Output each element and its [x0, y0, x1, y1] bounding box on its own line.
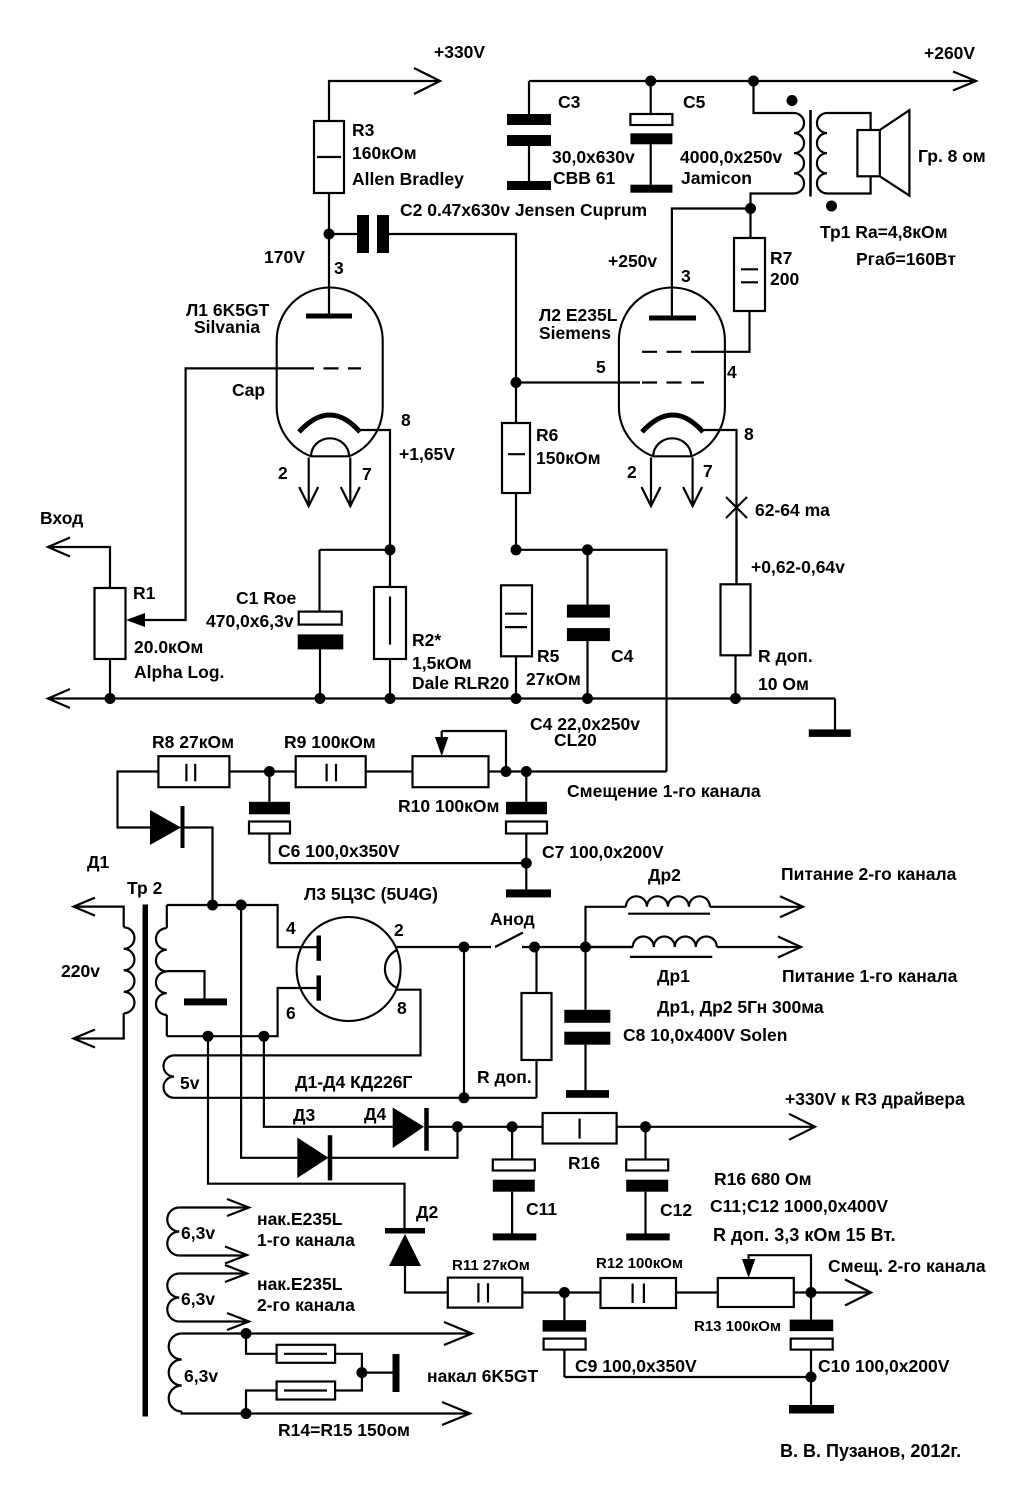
wire Л3 pin 2 to switch: [396, 946, 491, 948]
node pin2/bus tap: [459, 942, 470, 953]
wire CT to chassis bar: [362, 1371, 393, 1373]
potentiometer R1: [95, 588, 126, 659]
node R5 on bus: [511, 693, 522, 704]
R13 wiper arrow: [742, 1255, 811, 1292]
svg-text:C11;C12 1000,0x400V: C11;C12 1000,0x400V: [710, 1196, 888, 1216]
svg-text:Д1-Д4 КД226Г: Д1-Д4 КД226Г: [295, 1072, 412, 1092]
heater arrow pin 2 Л1: [299, 458, 318, 507]
resistor R8: [158, 756, 229, 787]
node R14 tap: [241, 1328, 252, 1339]
capacitor C11: [493, 1127, 535, 1234]
wire cathode bus C1-R2: [320, 549, 391, 551]
svg-text:R11 27кОм: R11 27кОм: [452, 1257, 530, 1274]
resistor R доп PSU: [522, 947, 552, 1098]
node heater CT: [356, 1367, 367, 1378]
node pin2 line on 5v bus: [459, 1092, 470, 1103]
ground bus with left arrow: [48, 697, 835, 699]
chassis bar накал: [393, 1354, 400, 1392]
svg-text:R9 100кОм: R9 100кОм: [284, 732, 376, 752]
svg-text:R6: R6: [536, 425, 559, 445]
svg-text:R13 100кОм: R13 100кОм: [694, 1318, 781, 1335]
resistor R5: [501, 585, 532, 698]
svg-text:R доп.: R доп.: [758, 646, 813, 666]
choke Др2: [586, 896, 804, 947]
svg-text:150кОм: 150кОм: [536, 448, 601, 468]
svg-text:CBB 61: CBB 61: [553, 168, 616, 188]
resistor R9: [296, 756, 366, 787]
ground symbol HV center tap: [184, 998, 227, 1005]
wire R11 to R12: [522, 1291, 600, 1293]
svg-text:Ргаб=160Вт: Ргаб=160Вт: [856, 249, 956, 269]
wire X to R доп: [735, 518, 737, 584]
resistor R7: [734, 209, 765, 312]
wire cathode pin 8 Л2 down: [703, 430, 737, 584]
node C4 top: [582, 544, 593, 555]
svg-text:7: 7: [703, 461, 713, 481]
svg-text:R доп. 3,3 кОм 15 Вт.: R доп. 3,3 кОм 15 Вт.: [713, 1225, 896, 1245]
svg-text:+1,65V: +1,65V: [399, 444, 455, 464]
svg-text:C1 Roe: C1 Roe: [236, 588, 297, 608]
svg-text:R12 100кОм: R12 100кОм: [596, 1255, 683, 1272]
node Л2 grid / R6: [511, 377, 522, 388]
Tp1 core: [809, 110, 812, 197]
wire node to Л2 plate stem: [672, 209, 751, 319]
wire HV bottom: [167, 988, 317, 1036]
node R доп on bus: [730, 693, 741, 704]
heater dome Л1: [311, 438, 349, 456]
resistor R6: [502, 383, 530, 550]
svg-text:Л3 5Ц3С (5U4G): Л3 5Ц3С (5U4G): [304, 884, 438, 904]
node Д2 feed on HV bottom: [203, 1031, 214, 1042]
wire R1 bottom to ground bus: [109, 659, 111, 699]
node junction R3/C2/plate: [324, 229, 335, 240]
svg-text:1-го канала: 1-го канала: [257, 1230, 355, 1250]
heater dome Л2: [653, 438, 691, 456]
node C9/C10 join: [806, 1372, 817, 1383]
node R2 top: [385, 544, 396, 555]
wire Д3 feed down: [241, 905, 297, 1158]
rectifier Л3 envelope circle: [297, 917, 401, 1021]
svg-text:Allen Bradley: Allen Bradley: [352, 169, 464, 189]
svg-text:R14=R15 150ом: R14=R15 150ом: [278, 1420, 410, 1440]
wire Д4 feed down: [264, 1036, 393, 1127]
svg-text:R доп.: R доп.: [477, 1067, 532, 1087]
svg-text:В. В. Пузанов, 2012г.: В. В. Пузанов, 2012г.: [780, 1441, 961, 1461]
node C1 on bus: [315, 693, 326, 704]
node Tp1 primary on bus: [748, 76, 759, 87]
wire R7 bottom to screen grid pin 4: [703, 311, 750, 352]
svg-text:+330V: +330V: [434, 42, 485, 62]
svg-text:Анод: Анод: [490, 909, 535, 929]
HV center tap wire: [167, 971, 205, 998]
wire R3 bottom to node: [328, 193, 330, 316]
node plate Л2 / R7 / Tp1: [745, 203, 756, 214]
wire input with arrow to R1 top: [48, 547, 110, 588]
Tp1 phase dot secondary: [826, 201, 837, 212]
ground symbol C12: [626, 1233, 670, 1240]
Л3 anode pin 4 bar: [317, 936, 322, 961]
svg-text:R8 27кОм: R8 27кОм: [152, 732, 234, 752]
wire C6 bottom to C7 bottom: [269, 862, 526, 864]
capacitor C8: [564, 947, 610, 1090]
svg-text:C12: C12: [660, 1200, 692, 1220]
current break X symbol: [726, 497, 747, 518]
svg-text:R16: R16: [568, 1153, 600, 1173]
svg-text:Alpha Log.: Alpha Log.: [134, 662, 224, 682]
svg-text:Dale RLR20: Dale RLR20: [412, 673, 510, 693]
wire bus to Tp1 primary top: [754, 81, 795, 113]
svg-text:Питание 2-го канала: Питание 2-го канала: [781, 864, 957, 884]
wire C9 to C10 bottom join: [564, 1376, 811, 1378]
wire HV top: [167, 905, 317, 947]
svg-text:C6 100,0x350V: C6 100,0x350V: [278, 841, 400, 861]
Тр2 HV secondary winding: [156, 905, 167, 1036]
svg-text:C2 0.47x630v Jensen Cuprum: C2 0.47x630v Jensen Cuprum: [400, 200, 647, 220]
wire Д3 cathode to B+ node: [332, 1127, 458, 1158]
svg-text:R16 680 Ом: R16 680 Ом: [714, 1169, 812, 1189]
Тр2 6,3v winding 3: [169, 1322, 472, 1425]
transformer Tp1 secondary winding: [817, 113, 827, 193]
svg-text:Тр1 Ra=4,8кОм: Тр1 Ra=4,8кОм: [820, 222, 948, 242]
wire +330V feed with arrow: [329, 81, 438, 121]
svg-text:20.0кОм: 20.0кОм: [134, 637, 203, 657]
svg-text:накал 6K5GT: накал 6K5GT: [427, 1366, 538, 1386]
cathode Л2 thick arc: [642, 415, 703, 432]
svg-text:160кОм: 160кОм: [352, 143, 417, 163]
svg-text:2: 2: [278, 463, 288, 483]
node R1 on bus: [105, 693, 116, 704]
R1 wiper arrow: [126, 613, 145, 627]
capacitor C3: [507, 81, 551, 190]
svg-text:Д4: Д4: [364, 1104, 386, 1124]
node C12 tap: [640, 1121, 651, 1132]
svg-text:4000,0x250v: 4000,0x250v: [680, 147, 782, 167]
cathode Л1 thick arc: [299, 415, 360, 432]
capacitor C9: [543, 1293, 587, 1378]
wire R12 to R13: [676, 1291, 718, 1293]
wire bus end to ground: [834, 699, 836, 730]
capacitor C4: [567, 550, 610, 699]
svg-text:30,0x630v: 30,0x630v: [552, 147, 635, 167]
heater arrow pin 7 Л1: [341, 458, 360, 507]
node R6/R5 junction: [511, 544, 522, 555]
resistor R16: [543, 1113, 617, 1144]
node C9 tap: [559, 1287, 570, 1298]
node R15 tap: [241, 1408, 252, 1419]
diode Д4: [393, 1108, 427, 1151]
svg-text:C9 100,0x350V: C9 100,0x350V: [575, 1356, 697, 1376]
svg-text:Гр. 8 ом: Гр. 8 ом: [918, 146, 986, 166]
plate (anode) Л1: [306, 314, 352, 319]
resistor R14: [246, 1334, 335, 1363]
svg-text:2: 2: [627, 462, 637, 482]
node C6/C7 join: [521, 858, 532, 869]
wire R доп to ground bus: [734, 655, 736, 698]
svg-text:CL20: CL20: [554, 730, 597, 750]
Тр2 core: [143, 905, 149, 1417]
node C11 tap: [507, 1121, 518, 1132]
wire +260V bus with arrow: [529, 80, 974, 82]
svg-text:2-го канала: 2-го канала: [257, 1295, 355, 1315]
tube Л1 6K5GT envelope: [277, 288, 383, 457]
plate (anode) Л2: [649, 316, 696, 321]
wire Д4 cathode to R16: [429, 1126, 543, 1128]
capacitor C10: [790, 1293, 834, 1406]
node R2 on bus: [385, 693, 396, 704]
Тр2 6,3v winding 1: [167, 1199, 249, 1264]
svg-text:5v: 5v: [180, 1073, 200, 1093]
svg-text:Д1: Д1: [87, 852, 109, 872]
svg-text:6,3v: 6,3v: [181, 1289, 215, 1309]
svg-text:170V: 170V: [264, 247, 305, 267]
resistor R2: [374, 550, 406, 699]
svg-text:220v: 220v: [61, 961, 100, 981]
wire 5v bottom bus: [174, 1097, 536, 1099]
svg-text:R7: R7: [770, 248, 792, 268]
switch Анод: [495, 933, 540, 953]
svg-text:4: 4: [286, 918, 296, 938]
wire R9 to R10: [366, 770, 413, 772]
svg-text:C10 100,0x200V: C10 100,0x200V: [818, 1356, 950, 1376]
wire Д2 feed down: [208, 1036, 405, 1228]
svg-text:R10 100кОм: R10 100кОм: [398, 796, 499, 816]
wire R13 right with arrow Смещ: [794, 1291, 869, 1293]
svg-text:5: 5: [596, 357, 606, 377]
svg-text:C8 10,0x400V Solen: C8 10,0x400V Solen: [623, 1025, 787, 1045]
wire Д2 anode to R11: [405, 1266, 448, 1293]
Tp1 phase dot primary: [787, 95, 798, 106]
wire cathode pin 8 to R2 top: [360, 430, 390, 550]
diode Д2: [385, 1228, 425, 1266]
heater arrow pin 7 Л2: [683, 458, 702, 507]
svg-text:6,3v: 6,3v: [181, 1223, 215, 1243]
svg-text:Тр 2: Тр 2: [127, 878, 163, 898]
svg-text:Др1: Др1: [657, 966, 690, 986]
svg-text:нак.E235L: нак.E235L: [257, 1209, 343, 1229]
node Д3 feed on HV top: [236, 900, 247, 911]
control grid Л2 (dashed) with wire to node: [516, 381, 704, 383]
svg-text:Др1, Др2 5Гн 300ма: Др1, Др2 5Гн 300ма: [657, 997, 824, 1017]
node R10 wiper join: [501, 766, 512, 777]
resistor R доп 10 Ом: [721, 584, 751, 655]
svg-text:Д2: Д2: [416, 1202, 438, 1222]
svg-text:200: 200: [770, 269, 799, 289]
node C4 on bus: [582, 693, 593, 704]
node R13/C10: [806, 1287, 817, 1298]
ground symbol C11: [493, 1233, 537, 1240]
resistor R12: [601, 1278, 677, 1308]
ground symbol C8: [566, 1090, 609, 1098]
svg-text:C11: C11: [526, 1199, 557, 1219]
node B+ C8/Др: [580, 942, 591, 953]
diode Д1: [150, 806, 183, 848]
wire R14/R15 join: [335, 1354, 362, 1391]
svg-text:62-64 ma: 62-64 ma: [755, 500, 830, 520]
resistor R11: [448, 1278, 523, 1308]
svg-text:C5: C5: [683, 92, 706, 112]
wire R16 right with arrow +330V: [617, 1126, 813, 1128]
svg-text:Д3: Д3: [293, 1105, 315, 1125]
Тр2 primary 220v winding: [74, 898, 135, 1048]
wire Д1 cathode to Тр2 HV top: [184, 828, 213, 905]
potentiometer R10: [413, 756, 489, 787]
node C6 tap: [264, 766, 275, 777]
Л3 filament arc: [385, 950, 397, 988]
ground symbol C10: [789, 1405, 834, 1414]
svg-text:470,0x6,3v: 470,0x6,3v: [206, 611, 294, 631]
svg-text:Siemens: Siemens: [539, 323, 611, 343]
svg-text:нак.E235L: нак.E235L: [257, 1274, 343, 1294]
wire R10 right to feed: [489, 770, 667, 772]
svg-text:Jamicon: Jamicon: [681, 168, 752, 188]
svg-text:+330V к R3 драйвера: +330V к R3 драйвера: [785, 1089, 965, 1109]
wire Tp1 primary bottom to plate node: [751, 194, 795, 209]
svg-text:C3: C3: [558, 92, 581, 112]
svg-text:+0,62-0,64v: +0,62-0,64v: [751, 557, 845, 577]
svg-text:Смещение 1-го канала: Смещение 1-го канала: [567, 781, 761, 801]
potentiometer R13: [718, 1278, 794, 1307]
capacitor C7: [506, 772, 547, 890]
svg-text:Silvania: Silvania: [194, 317, 260, 337]
wire C2 to Л2 grid node: [389, 234, 516, 382]
resistor R15: [246, 1382, 335, 1414]
svg-text:R5: R5: [537, 646, 560, 666]
node C5 on bus: [645, 76, 656, 87]
svg-text:8: 8: [397, 998, 407, 1018]
svg-text:C4: C4: [611, 646, 634, 666]
Тр2 5v winding: [164, 1055, 175, 1097]
node Д3/Д4 join: [452, 1121, 463, 1132]
screen grid Л2 (dashed): [642, 351, 705, 353]
svg-text:3: 3: [681, 266, 691, 286]
transformer Tp1 primary winding: [794, 113, 804, 193]
wire R8 left to Д1 anode: [118, 772, 159, 828]
choke Др1: [586, 937, 802, 958]
svg-text:R3: R3: [352, 120, 375, 140]
ground symbol C7: [506, 889, 551, 897]
heater arrow pin 2 Л2: [642, 458, 661, 507]
svg-text:+260V: +260V: [924, 43, 975, 63]
node Д4 feed on HV bottom: [258, 1031, 269, 1042]
svg-text:6: 6: [286, 1003, 296, 1023]
capacitor C2: [329, 215, 389, 253]
svg-text:8: 8: [401, 410, 411, 430]
svg-text:Вход: Вход: [40, 508, 83, 528]
ground symbol main bus: [809, 729, 851, 737]
Л3 anode pin 6 bar: [317, 975, 322, 1000]
capacitor C6: [249, 772, 290, 864]
node Д1 on HV top: [207, 900, 218, 911]
svg-text:6,3v: 6,3v: [184, 1366, 218, 1386]
diode Д3: [297, 1135, 330, 1180]
wire switch to B+ node: [522, 946, 633, 948]
wire grid node bus to C4 and feed: [516, 550, 667, 772]
svg-text:3: 3: [334, 258, 344, 278]
svg-text:Питание 1-го канала: Питание 1-го канала: [782, 966, 958, 986]
svg-text:27кОм: 27кОм: [526, 669, 581, 689]
svg-text:2: 2: [394, 920, 404, 940]
svg-text:10 Ом: 10 Ом: [758, 674, 809, 694]
capacitor C12: [626, 1127, 668, 1234]
svg-text:Л2 E235L: Л2 E235L: [539, 305, 618, 325]
svg-text:Смещ. 2-го канала: Смещ. 2-го канала: [828, 1256, 986, 1276]
svg-text:R2*: R2*: [412, 630, 441, 650]
svg-text:+250v: +250v: [608, 251, 657, 271]
svg-text:C7 100,0x200V: C7 100,0x200V: [542, 842, 664, 862]
svg-text:R1: R1: [133, 583, 156, 603]
svg-text:4: 4: [727, 362, 737, 382]
node C7 tap: [521, 766, 532, 777]
svg-text:1,5кОм: 1,5кОм: [412, 653, 472, 673]
svg-text:Др2: Др2: [648, 865, 681, 885]
speaker Гр. 8 ом: [857, 110, 909, 195]
svg-text:8: 8: [744, 424, 754, 444]
svg-text:Cap: Cap: [232, 380, 265, 400]
capacitor C1: [298, 550, 344, 699]
capacitor C5: [630, 81, 672, 193]
wire Tp1 secondary to speaker: [827, 113, 871, 130]
grid Л1 (dashed) with wire to R1 wiper: [144, 368, 361, 620]
wire pin2 tap down to 5v bus: [463, 947, 465, 1098]
R10 wiper arrow: [435, 731, 506, 772]
wire Л3 pin 8 to 5v winding: [174, 990, 420, 1056]
tube Л2 E235L envelope: [619, 288, 725, 457]
svg-text:7: 7: [362, 464, 372, 484]
resistor R3: [314, 121, 344, 193]
Тр2 6,3v winding 2: [167, 1265, 249, 1330]
wire R8 to R9: [229, 770, 295, 772]
